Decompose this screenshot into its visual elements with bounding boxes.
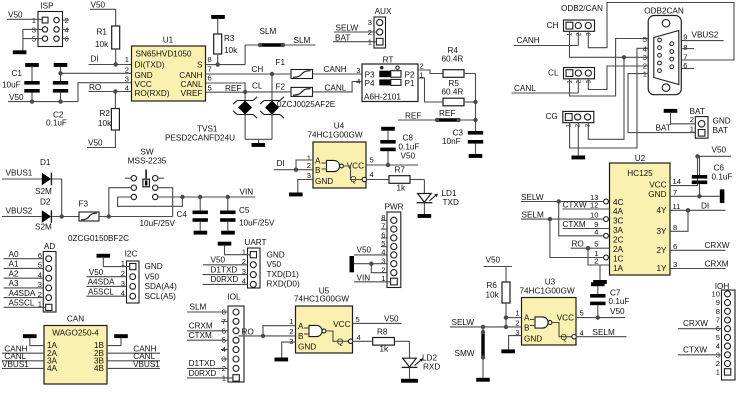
node CANL right [107, 352, 160, 361]
svg-text:CANL: CANL [325, 84, 347, 93]
tvs TVS1 right pair [260, 74, 284, 139]
node SELW at AUX [334, 24, 377, 33]
svg-text:CTXW: CTXW [683, 345, 707, 354]
node V50 at I2C [86, 268, 126, 277]
svg-text:10uF/25V: 10uF/25V [140, 219, 176, 228]
wire CH pin3 to top route [588, 3, 734, 61]
svg-text:C8: C8 [403, 134, 414, 143]
svg-text:4: 4 [370, 170, 374, 179]
ground at CAN 1A [23, 334, 44, 345]
svg-text:SLM: SLM [190, 303, 207, 312]
node D0RXD at IOL [187, 369, 233, 378]
svg-text:V50: V50 [91, 1, 106, 10]
node CTXW at IOH [678, 345, 722, 355]
node DI at U4 [277, 159, 285, 168]
svg-text:ODB2/CAN: ODB2/CAN [561, 4, 603, 13]
svg-text:4: 4 [716, 342, 720, 351]
node BAT at AUX [333, 34, 376, 43]
svg-text:10: 10 [712, 289, 720, 298]
svg-text:DI: DI [91, 55, 99, 64]
node A4SDA at I2C [86, 278, 126, 287]
svg-text:10k: 10k [98, 119, 112, 128]
wire U4 GND pin3 [298, 180, 313, 193]
wire U2 GND pin7 [670, 194, 720, 198]
node VBUS1 left [2, 360, 44, 369]
fuse F3 0ZCG0150BF2C [68, 200, 129, 244]
wire DB9 pin1 to BAT [628, 74, 698, 133]
power label V50 at ISP [7, 11, 42, 20]
tvs TVS1 PESD2CANFD24U left pair [233, 92, 257, 139]
node VBUS2 at DB9 pin9 [682, 31, 724, 41]
svg-text:A1: A1 [9, 260, 19, 269]
svg-text:5: 5 [208, 84, 212, 93]
svg-text:V50: V50 [357, 246, 372, 255]
svg-text:DI: DI [277, 159, 285, 168]
svg-text:D2: D2 [40, 198, 51, 207]
svg-text:0.1uF: 0.1uF [46, 119, 67, 128]
power label V50 at R2 [87, 139, 116, 148]
svg-text:VIN: VIN [240, 188, 254, 197]
wire CL pin2 stub [577, 79, 579, 93]
svg-text:S: S [197, 61, 203, 70]
svg-text:GND: GND [145, 262, 163, 271]
svg-text:8: 8 [683, 43, 687, 52]
svg-text:Q: Q [337, 338, 343, 347]
svg-text:S2M: S2M [35, 223, 52, 232]
svg-text:CANL: CANL [181, 80, 203, 89]
svg-text:CANH: CANH [517, 36, 540, 45]
ground at C4 [194, 231, 208, 235]
node BAT [656, 123, 671, 132]
svg-text:VCC: VCC [135, 80, 152, 89]
svg-text:SLM: SLM [294, 36, 311, 45]
ground at U3 [501, 349, 515, 353]
svg-text:6: 6 [208, 74, 212, 83]
resistor R6 10k [486, 281, 511, 327]
diode D1 S2M [35, 158, 52, 196]
svg-text:VBUS1: VBUS1 [6, 169, 33, 178]
ground below U2 [593, 280, 607, 284]
svg-text:S2M: S2M [35, 187, 52, 196]
wire U5 GND pin3 [282, 342, 296, 357]
svg-text:4Y: 4Y [656, 206, 667, 215]
node CL [252, 82, 263, 91]
jumper SLM [245, 27, 315, 47]
fuse F1 [276, 58, 313, 79]
svg-text:GND: GND [648, 190, 666, 199]
svg-text:A: A [298, 322, 304, 331]
node CANL left [2, 352, 44, 361]
wire SELW to U3 inputs [450, 315, 522, 329]
svg-text:U2: U2 [635, 154, 646, 163]
svg-text:74HC1G00GW: 74HC1G00GW [294, 295, 349, 304]
svg-text:A4SDA: A4SDA [88, 278, 115, 287]
node SELM at U2 [521, 211, 604, 258]
svg-text:SELM: SELM [593, 328, 615, 337]
svg-text:LD2: LD2 [422, 354, 437, 363]
svg-text:R3: R3 [224, 34, 235, 43]
svg-text:F3: F3 [79, 200, 89, 209]
svg-text:GND: GND [713, 117, 731, 126]
wire D2 to F3 [52, 214, 79, 218]
node V50 at PWR [354, 246, 387, 255]
node RO at U5 [242, 327, 254, 336]
svg-text:1C: 1C [613, 255, 624, 264]
svg-text:MSS-2235: MSS-2235 [128, 157, 167, 166]
svg-text:WAGO250-4: WAGO250-4 [52, 329, 99, 338]
capacitor C6 0.1uF [692, 156, 733, 196]
svg-text:R7: R7 [395, 166, 406, 175]
svg-text:GND: GND [135, 71, 153, 80]
svg-text:7: 7 [208, 65, 212, 74]
resistor R3 10k [214, 34, 238, 65]
node CANL to RT [313, 82, 363, 93]
svg-text:A6H-2101: A6H-2101 [364, 92, 401, 101]
node REF at U1 pin5 [206, 84, 244, 93]
wire U1 pin6 CL to F2 [206, 83, 292, 94]
svg-text:R8: R8 [377, 328, 388, 337]
node V50 at U2 [695, 146, 731, 159]
svg-text:1: 1 [125, 55, 129, 64]
svg-text:C6: C6 [714, 164, 725, 173]
svg-text:CL: CL [252, 82, 263, 91]
svg-text:UART: UART [244, 238, 266, 247]
node CANH right [107, 345, 160, 354]
resistor R1 10k [95, 26, 120, 65]
svg-text:CL: CL [548, 68, 559, 77]
wire LD2 to ground [409, 367, 411, 379]
svg-text:1k: 1k [380, 345, 390, 354]
svg-text:VCC: VCC [557, 314, 574, 323]
node CANH to RT [313, 65, 363, 74]
node VIN rail [240, 188, 254, 197]
svg-text:CTXW: CTXW [563, 201, 587, 210]
svg-text:2: 2 [690, 115, 694, 124]
resistor R5 60.4R [442, 79, 476, 106]
svg-text:2: 2 [716, 359, 720, 368]
svg-text:U4: U4 [334, 122, 345, 131]
svg-text:C1: C1 [12, 69, 23, 78]
svg-text:10k: 10k [486, 291, 500, 300]
switch SW MSS-2235 [125, 148, 167, 200]
ground at CAN 1B [107, 334, 128, 345]
svg-text:3Y: 3Y [656, 227, 667, 236]
svg-text:ISP: ISP [40, 2, 54, 11]
node SLM at IOL [187, 303, 228, 313]
wire CG pin2 to ground [577, 123, 579, 156]
svg-text:U1: U1 [163, 36, 174, 45]
node D1TXD at UART [203, 265, 248, 274]
svg-text:2Y: 2Y [656, 246, 667, 255]
node CRXM at IOL [187, 322, 228, 331]
connector CL jumper [548, 68, 594, 84]
ground bar at U2 GND [720, 189, 725, 203]
node A5SCL [4, 299, 46, 308]
node VBUS1 [2, 169, 42, 180]
wire CH pin2 stub [577, 31, 579, 45]
node RO [89, 83, 101, 92]
wire U1 pin7 CH to F1 [206, 72, 292, 76]
svg-text:V50: V50 [384, 315, 399, 324]
ground above C1 [25, 63, 39, 67]
wire DI to U1 pin1 [89, 62, 132, 66]
capacitor C4 10uF/25V [140, 197, 208, 231]
svg-text:1: 1 [716, 368, 720, 377]
wire RO to U5 inputs [238, 326, 295, 338]
svg-text:CG: CG [546, 112, 558, 121]
wire CG pin3 to DB9 pin3 [588, 57, 624, 139]
node V50 at U3 VCC [576, 307, 625, 320]
svg-text:7: 7 [673, 188, 677, 197]
svg-text:4A: 4A [613, 207, 624, 216]
wire CH pin1 down [569, 31, 571, 57]
svg-text:V50: V50 [267, 260, 282, 269]
svg-text:A5SCL: A5SCL [9, 299, 35, 308]
svg-text:B: B [524, 323, 530, 332]
ground at U5 [275, 358, 289, 362]
svg-text:RO: RO [242, 327, 254, 336]
svg-text:4A: 4A [47, 364, 58, 373]
svg-text:CTXM: CTXM [563, 220, 586, 229]
svg-text:VBUS1: VBUS1 [133, 360, 160, 369]
ground at I2C pin1 [97, 254, 130, 267]
svg-text:11: 11 [673, 202, 681, 211]
connector AUX [368, 7, 392, 48]
svg-text:R6: R6 [487, 281, 498, 290]
wire VIN rail [158, 195, 255, 199]
svg-text:REF: REF [439, 109, 455, 118]
ground at SMW [476, 378, 490, 382]
svg-text:PWR: PWR [384, 203, 403, 212]
svg-text:GND: GND [315, 177, 333, 186]
svg-text:4: 4 [643, 45, 647, 54]
ground at ISP [13, 50, 27, 54]
ground at UART pin1 [218, 242, 251, 255]
svg-text:3C: 3C [613, 217, 624, 226]
svg-text:74HC1G00GW: 74HC1G00GW [520, 287, 575, 296]
svg-text:1: 1 [690, 125, 694, 134]
dip-switch RT A6H-2101 [356, 56, 423, 102]
svg-text:0.1uF: 0.1uF [609, 297, 630, 306]
svg-text:0.1uF: 0.1uF [399, 143, 420, 152]
led LD2 RXD [402, 341, 441, 371]
svg-text:V50: V50 [401, 152, 416, 161]
svg-text:4B: 4B [94, 364, 105, 373]
svg-text:10k: 10k [224, 46, 238, 55]
svg-text:0.1uF: 0.1uF [712, 173, 733, 182]
svg-text:V50: V50 [211, 256, 226, 265]
svg-text:4: 4 [357, 333, 361, 342]
node A4SDA [4, 289, 44, 298]
svg-text:10uF/25V: 10uF/25V [239, 219, 275, 228]
svg-text:CAN: CAN [67, 315, 84, 324]
svg-text:10: 10 [590, 211, 598, 220]
svg-text:D0RXD: D0RXD [189, 369, 217, 378]
node DI at U2 4Y [670, 201, 726, 231]
wire DB9 pin8 stub [682, 48, 694, 50]
capacitor C7 0.1uF [590, 286, 629, 317]
svg-text:3: 3 [673, 260, 677, 269]
jumper REF [398, 109, 476, 122]
jumper SMW [455, 327, 486, 378]
capacitor C1 10uF [2, 67, 40, 102]
node CTXW at U2 [563, 201, 610, 210]
node VBUS1 right [107, 360, 160, 369]
node D0RXD at UART [203, 275, 248, 284]
wire F3 to switch [99, 214, 173, 218]
node RO at U2 [571, 239, 610, 265]
ground at TVS1 [165, 125, 265, 147]
svg-text:D0RXD: D0RXD [211, 275, 239, 284]
svg-text:CH: CH [547, 21, 559, 30]
wire D1 to VBUS2 junction [52, 179, 62, 217]
transceiver U1 SN65HVD1050 [125, 36, 212, 102]
svg-text:B: B [315, 166, 321, 175]
connector I2C [121, 250, 177, 304]
svg-text:3: 3 [289, 337, 293, 346]
svg-text:14: 14 [673, 177, 681, 186]
wire ISP pins 3,5 to ground [23, 29, 42, 50]
svg-text:CANL: CANL [514, 84, 536, 93]
capacitor C3 10nF [442, 129, 483, 155]
svg-text:Q: Q [561, 333, 567, 342]
svg-text:CANH: CANH [179, 71, 202, 80]
wire RO to U1 pin4 [89, 89, 132, 93]
resistor R2 10k [98, 92, 119, 148]
svg-text:SN65HVD1050: SN65HVD1050 [136, 50, 192, 59]
svg-text:SELM: SELM [522, 211, 544, 220]
svg-text:IOL: IOL [227, 293, 241, 302]
svg-text:DI(TXD): DI(TXD) [135, 61, 165, 70]
node CANH at CH [514, 36, 578, 46]
connector IOH [712, 282, 735, 380]
svg-text:2: 2 [307, 161, 311, 170]
node SELW at U3 [452, 318, 475, 327]
node VIN at PWR [354, 274, 391, 283]
svg-text:5: 5 [594, 240, 598, 249]
svg-text:5: 5 [643, 35, 647, 44]
ground at C5 [221, 231, 235, 235]
svg-text:A: A [524, 314, 530, 323]
node CANL at CL [512, 84, 579, 93]
resistor R8 1k [353, 328, 410, 354]
svg-text:1: 1 [515, 309, 519, 318]
node A1 [4, 260, 44, 269]
svg-text:REF: REF [405, 112, 421, 121]
svg-text:60.4R: 60.4R [442, 55, 464, 64]
svg-text:D1: D1 [40, 158, 51, 167]
capacitor C5 10uF/25V [220, 197, 275, 231]
svg-text:2: 2 [289, 327, 293, 336]
node V50 at U5 VCC [353, 315, 402, 324]
svg-text:5: 5 [716, 333, 720, 342]
node CANH left [2, 345, 44, 354]
svg-text:0ZCJ0025AF2E: 0ZCJ0025AF2E [277, 100, 336, 109]
svg-text:SCL(A5): SCL(A5) [145, 292, 177, 301]
svg-text:AUX: AUX [375, 7, 392, 16]
svg-text:RT: RT [383, 56, 394, 65]
ground above C2 [54, 63, 68, 67]
svg-text:V50: V50 [145, 272, 160, 281]
wire R4/R5 junction down to REF and C3 [473, 74, 477, 132]
node A5SCL at I2C [86, 288, 126, 297]
power label V50 at R6 [484, 256, 513, 283]
svg-text:4: 4 [125, 84, 129, 93]
ground at BAT pin2 [664, 109, 696, 124]
svg-text:D1TXD: D1TXD [211, 265, 238, 274]
diode D2 S2M [35, 198, 52, 232]
svg-text:V50: V50 [610, 307, 625, 316]
node A0 [4, 250, 44, 259]
svg-text:8: 8 [208, 55, 212, 64]
svg-text:SELW: SELW [336, 24, 359, 33]
wire SW second pole loop [118, 197, 183, 206]
ground bar at PWR [350, 256, 355, 272]
svg-text:CRXM: CRXM [705, 259, 729, 268]
wire C2 to U1 GND [58, 71, 131, 75]
svg-text:C4: C4 [177, 210, 188, 219]
svg-text:CRXW: CRXW [705, 241, 730, 250]
svg-text:RXD(D0): RXD(D0) [267, 280, 300, 289]
svg-text:5: 5 [356, 315, 360, 324]
node CRXW at IOH [678, 319, 722, 329]
svg-text:A0: A0 [9, 250, 19, 259]
node CTXM at IOL [187, 331, 228, 340]
ground above C8 [381, 127, 395, 131]
svg-text:3: 3 [307, 171, 311, 180]
connector CH jumper [547, 20, 595, 36]
svg-text:3: 3 [125, 75, 129, 84]
svg-text:V50: V50 [486, 256, 501, 265]
svg-text:PESD2CANFD24U: PESD2CANFD24U [165, 134, 235, 143]
svg-text:A: A [315, 157, 321, 166]
wire V50 rail to U1 VCC [8, 83, 132, 104]
node CH [252, 65, 264, 74]
svg-text:RO: RO [572, 239, 584, 248]
svg-text:CTXM: CTXM [189, 331, 212, 340]
wire DI to U4 inputs [274, 160, 313, 172]
svg-text:F1: F1 [276, 58, 286, 67]
svg-text:CH: CH [252, 65, 264, 74]
svg-text:9: 9 [716, 298, 720, 307]
svg-text:1k: 1k [397, 184, 407, 193]
node A3 [4, 279, 44, 288]
svg-text:4: 4 [580, 329, 584, 338]
svg-text:SLM: SLM [260, 27, 277, 36]
svg-text:1: 1 [32, 16, 36, 25]
node DI [91, 55, 99, 64]
svg-text:RO(RXD): RO(RXD) [135, 89, 170, 98]
ground above C7 [591, 282, 605, 286]
svg-text:P4: P4 [365, 79, 375, 88]
node D1TXD at IOL [187, 359, 228, 368]
nand gate U4 74HC1G00GW [307, 122, 374, 189]
wire U3 GND pin3 [509, 336, 522, 350]
node CRXM at U2 1Y [670, 259, 729, 268]
connector CAN WAGO250-4 [44, 315, 107, 385]
svg-text:6: 6 [673, 242, 677, 251]
svg-text:B: B [298, 332, 304, 341]
wire SW pole to F3 side [158, 188, 173, 217]
svg-text:ODB2CAN: ODB2CAN [644, 7, 684, 16]
svg-text:BAT: BAT [713, 126, 728, 135]
svg-text:LD1: LD1 [442, 189, 457, 198]
svg-text:0ZCG0150BF2C: 0ZCG0150BF2C [68, 234, 129, 243]
buffer U2 HC125 [590, 154, 681, 275]
ground at LD1 [418, 214, 432, 218]
wire CG pin1 to DB9 pin4 [570, 48, 649, 148]
svg-text:2A: 2A [613, 245, 624, 254]
